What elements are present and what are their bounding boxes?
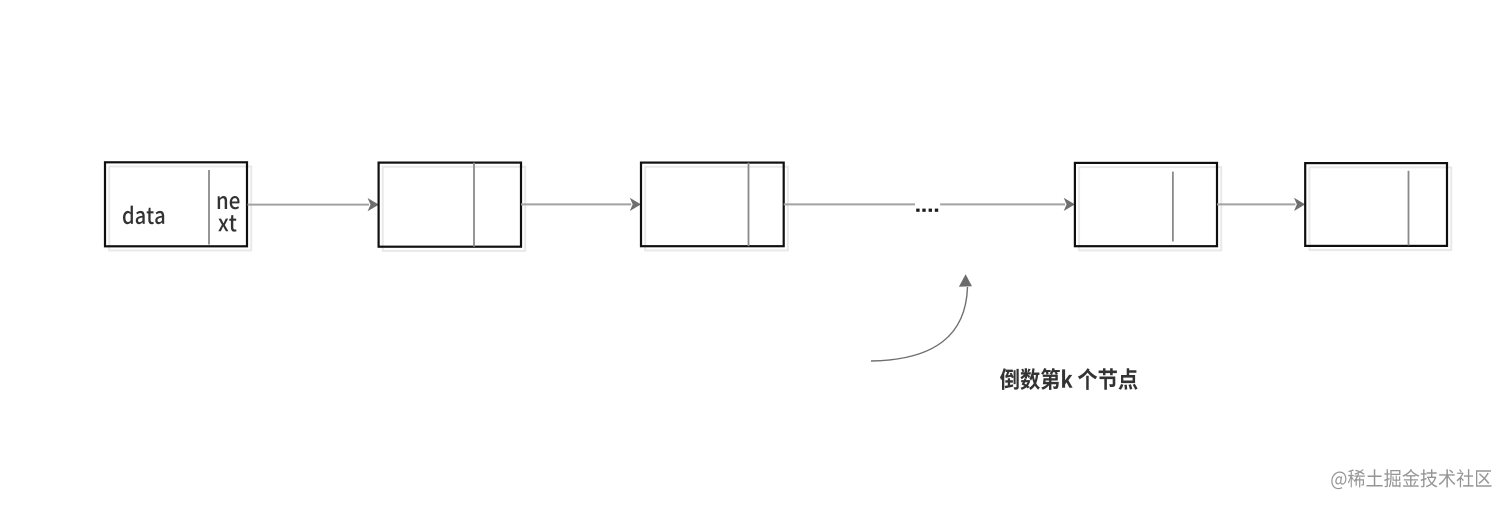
label data xyxy=(123,206,164,225)
node N2 divider xyxy=(473,163,475,247)
wire arrow N1-N2 xyxy=(248,204,370,206)
wire arrow dots-N4 (right segment) xyxy=(940,203,1065,205)
wire arrow N2-N3 xyxy=(521,203,631,205)
arrowhead N2-N3 xyxy=(630,198,641,211)
node box N3 xyxy=(641,163,784,247)
node box N1 shadow xyxy=(109,167,251,251)
watermark @稀土掘金技术社区 xyxy=(1331,469,1491,489)
node box N3 shadow xyxy=(645,167,788,251)
node N4 divider xyxy=(1172,172,1174,242)
node N3 divider xyxy=(748,163,750,247)
label next (wrapped) xyxy=(218,196,240,232)
arrowhead N4-N5 xyxy=(1294,198,1305,211)
annotation 倒数第k 个节点 xyxy=(1000,368,1138,390)
curved pointer wire xyxy=(871,287,968,361)
node box N5 shadow xyxy=(1309,167,1451,250)
arrowhead N1-N2 xyxy=(368,198,379,211)
node N5 divider xyxy=(1408,171,1410,246)
node box N4 shadow xyxy=(1079,167,1221,250)
node N1 divider xyxy=(208,170,210,245)
wire arrow N3-dots (left segment) xyxy=(784,203,915,205)
node box N1 (data|next) xyxy=(105,162,247,246)
wire arrow N4-N5 xyxy=(1217,203,1295,205)
node box N4 xyxy=(1075,163,1217,246)
node box N2 shadow xyxy=(383,167,525,251)
ellipsis dots label xyxy=(916,209,938,212)
curved pointer arrowhead xyxy=(959,274,972,287)
arrowhead dots-N4 xyxy=(1064,198,1075,211)
node box N2 xyxy=(379,163,521,247)
node box N5 xyxy=(1305,163,1447,246)
